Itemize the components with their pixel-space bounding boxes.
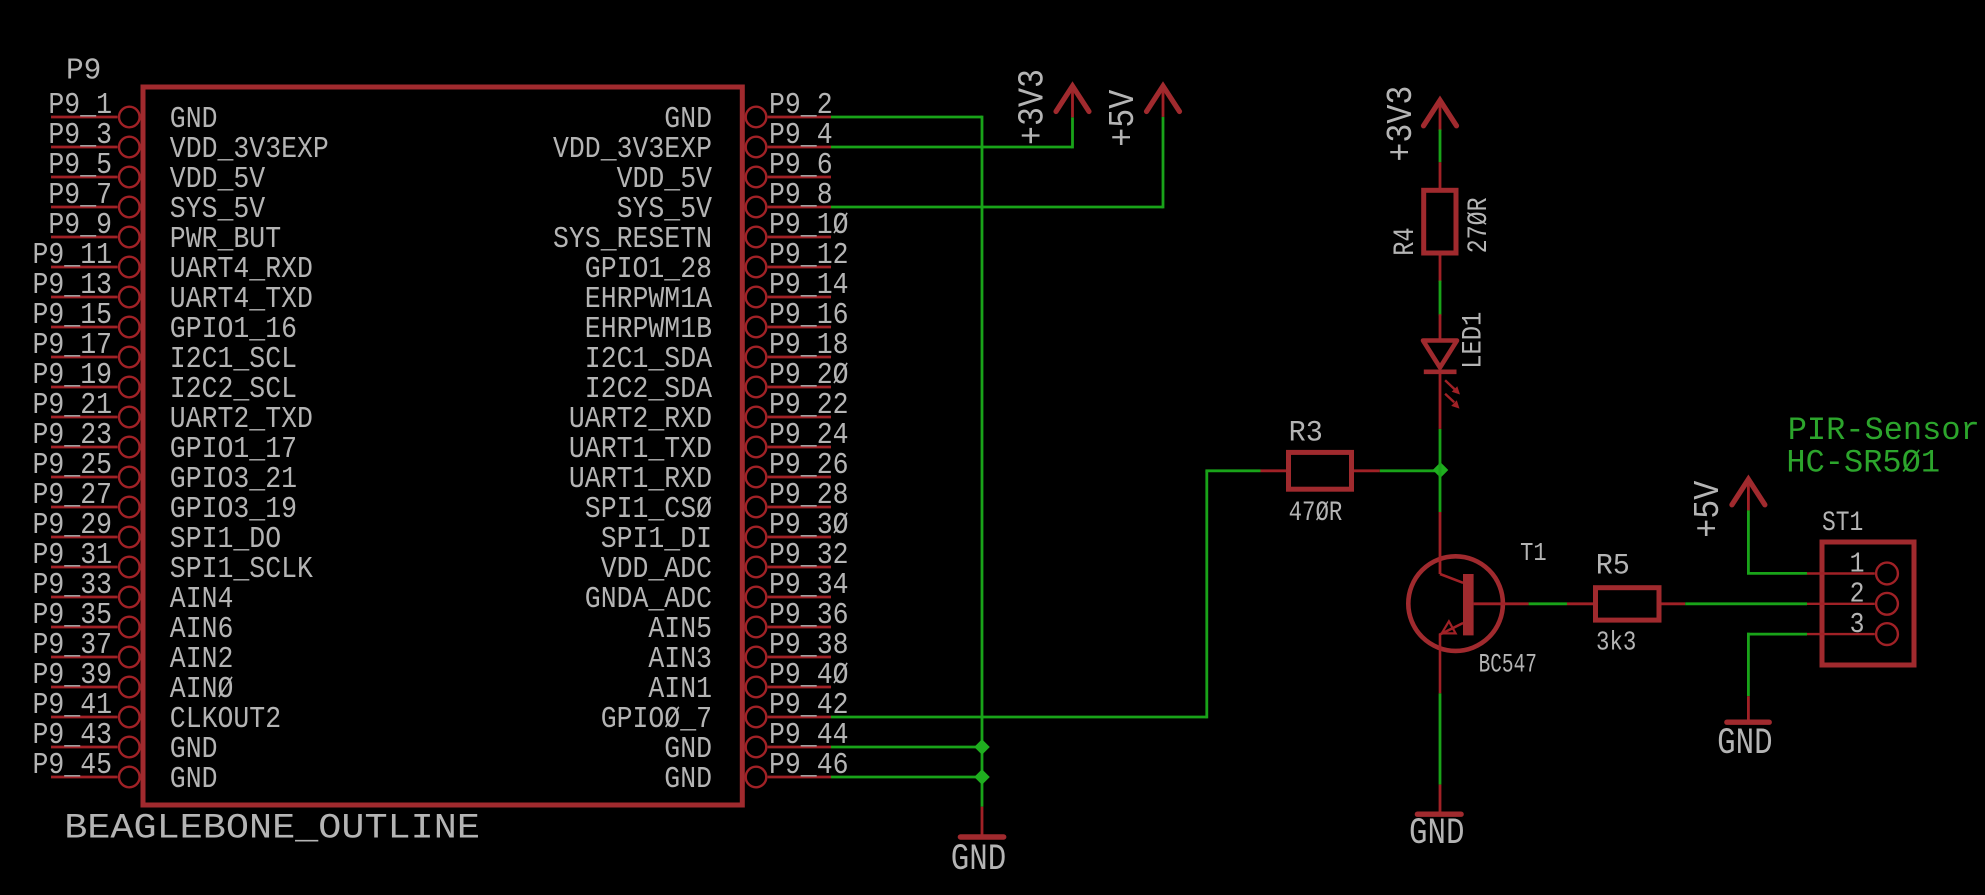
supply symbol +5V (near ST1)	[1689, 479, 1765, 538]
pin P9_19 (I2C2_SCL)	[33, 357, 297, 406]
svg-text:P9_45: P9_45	[33, 747, 112, 782]
svg-text:+5V: +5V	[1689, 480, 1729, 538]
svg-text:LED1: LED1	[1457, 312, 1489, 369]
pin P9_17 (I2C1_SCL)	[33, 327, 297, 376]
wire net GND: ST1 pin 3 to ground	[1747, 633, 1807, 697]
connector ST1 (3-pin header)	[1822, 542, 1914, 665]
wire net +3V3: arrow to R4	[1439, 130, 1442, 163]
svg-text:GND: GND	[664, 761, 712, 796]
wire net: R5 to ST1 pin 2	[1685, 602, 1807, 605]
pin P9_32 (VDD_ADC)	[601, 537, 849, 586]
pin P9_42 (GPIOØ_7)	[601, 687, 849, 736]
pin P9_38 (AIN3)	[648, 627, 848, 676]
svg-text:+3V3: +3V3	[1382, 86, 1422, 162]
wire net: junction down to T1 collector	[1439, 463, 1442, 512]
svg-text:P9: P9	[66, 54, 101, 89]
pin P9_37 (AIN2)	[33, 627, 234, 676]
svg-text:1: 1	[1850, 549, 1865, 581]
pin P9_5 (VDD_5V)	[48, 147, 265, 196]
svg-text:R4: R4	[1388, 227, 1422, 255]
pin P9_23 (GPIO1_17)	[33, 417, 297, 466]
connector P9 BEAGLEBONE_OUTLINE box	[143, 87, 742, 805]
svg-text:GND: GND	[1409, 814, 1464, 855]
pin P9_18 (I2C1_SDA)	[585, 327, 849, 376]
pin P9_2 (GND)	[664, 87, 832, 136]
wire net GPIO0_7: P9_42 right, up to R3	[831, 471, 1261, 719]
ground symbol GND (ST1 pin 3)	[1717, 696, 1772, 765]
pin P9_35 (AIN6)	[33, 597, 234, 646]
wire net +3V3: P9_4 to supply arrow	[831, 117, 1073, 148]
pin P9_29 (SPI1_DO)	[33, 507, 282, 556]
pin P9_26 (UART1_RXD)	[569, 447, 849, 496]
pin P9_30 (SPI1_DI)	[601, 507, 849, 556]
wire net: junction up to LED1 cathode	[1439, 429, 1442, 477]
pin P9_36 (AIN5)	[648, 597, 848, 646]
junction at P9_46 branch	[974, 769, 990, 785]
pin P9_27 (GPIO3_19)	[33, 477, 297, 526]
pin P9_45 (GND)	[33, 747, 218, 796]
LED LED1	[1423, 314, 1457, 429]
pin P9_16 (EHRPWM1B)	[585, 297, 849, 346]
pin P9_22 (UART2_RXD)	[569, 387, 849, 436]
pin P9_20 (I2C2_SDA)	[585, 357, 849, 406]
supply symbol +5V (near P9_8)	[1104, 86, 1179, 147]
svg-text:47ØR: 47ØR	[1289, 497, 1343, 529]
svg-text:R5: R5	[1596, 549, 1630, 583]
wire net: R3 to junction node	[1380, 469, 1441, 472]
wire net GND: P9_44 branch	[831, 746, 982, 749]
pin P9_3 (VDD_3V3EXP)	[48, 117, 328, 166]
pin P9_39 (AINØ)	[33, 657, 234, 706]
resistor R5	[1567, 588, 1685, 620]
junction at P9_44 branch	[974, 739, 990, 755]
pin P9_13 (UART4_TXD)	[33, 267, 313, 316]
ground symbol GND (T1 emitter)	[1409, 785, 1464, 856]
pin P9_6 (VDD_5V)	[617, 147, 833, 196]
pin P9_34 (GNDA_ADC)	[585, 567, 849, 616]
pin P9_7 (SYS_5V)	[48, 177, 265, 226]
svg-text:3k3: 3k3	[1596, 628, 1636, 658]
svg-text:GND: GND	[170, 761, 218, 796]
ST1 pin 1	[1807, 549, 1898, 585]
pin P9_43 (GND)	[33, 717, 218, 766]
pin P9_1 (GND)	[48, 87, 217, 136]
ground symbol GND (below P9 box)	[951, 807, 1006, 881]
pin P9_11 (UART4_RXD)	[33, 237, 313, 286]
pin P9_25 (GPIO3_21)	[33, 447, 297, 496]
svg-text:+5V: +5V	[1104, 89, 1144, 147]
pin P9_24 (UART1_TXD)	[569, 417, 849, 466]
wire net +5V: P9_8 to supply arrow	[831, 117, 1163, 209]
svg-text:BEAGLEBONE_OUTLINE: BEAGLEBONE_OUTLINE	[64, 809, 480, 849]
wire net: T1 base to R5	[1529, 602, 1567, 605]
svg-text:27ØR: 27ØR	[1463, 197, 1495, 253]
supply symbol +3V3 (above R4)	[1382, 86, 1456, 162]
LED1 light emission arrows	[1445, 380, 1460, 408]
pin P9_31 (SPI1_SCLK)	[33, 537, 314, 586]
junction node (R3 / LED1 / T1 collector)	[1433, 462, 1449, 478]
supply symbol +3V3 (near P9_4)	[1014, 69, 1089, 145]
ST1 pin 2	[1807, 579, 1898, 615]
pin P9_8 (SYS_5V)	[617, 177, 833, 226]
pin P9_33 (AIN4)	[33, 567, 234, 616]
wire net +5V: arrow down and right to ST1 pin 1	[1747, 510, 1807, 573]
transistor T1 BC547	[1408, 512, 1528, 693]
wire net GND: P9_46 branch	[831, 776, 982, 779]
pin P9_46 (GND)	[664, 747, 848, 796]
svg-text:GND: GND	[951, 840, 1006, 881]
svg-text:+3V3: +3V3	[1014, 69, 1054, 145]
pin P9_4 (VDD_3V3EXP)	[553, 117, 833, 166]
svg-text:GND: GND	[1717, 723, 1772, 764]
wire net: T1 emitter to GND	[1439, 693, 1442, 784]
svg-text:2: 2	[1850, 579, 1865, 611]
pin P9_21 (UART2_TXD)	[33, 387, 313, 436]
svg-text:HC-SR5Ø1: HC-SR5Ø1	[1786, 444, 1940, 481]
wire net: R4 to LED1	[1439, 281, 1442, 316]
pin P9_40 (AIN1)	[648, 657, 848, 706]
pin P9_14 (EHRPWM1A)	[585, 267, 849, 316]
svg-text:3: 3	[1850, 609, 1865, 641]
pin P9_44 (GND)	[664, 717, 848, 766]
ST1 pin 3	[1807, 609, 1898, 645]
svg-text:R3: R3	[1289, 416, 1323, 450]
pin P9_12 (GPIO1_28)	[585, 237, 849, 286]
wire net GND: P9_2 down to GND symbol	[831, 116, 982, 807]
resistor R4	[1424, 162, 1456, 282]
pin P9_41 (CLKOUT2)	[33, 687, 282, 736]
svg-text:ST1: ST1	[1822, 507, 1863, 539]
pin P9_28 (SPI1_CSØ)	[585, 477, 849, 526]
pin P9_10 (SYS_RESETN)	[553, 207, 848, 256]
svg-text:BC547: BC547	[1479, 650, 1537, 681]
svg-text:T1: T1	[1520, 540, 1547, 569]
pin P9_9 (PWR_BUT)	[48, 207, 281, 256]
resistor R3	[1261, 452, 1380, 489]
pin P9_15 (GPIO1_16)	[33, 297, 297, 346]
